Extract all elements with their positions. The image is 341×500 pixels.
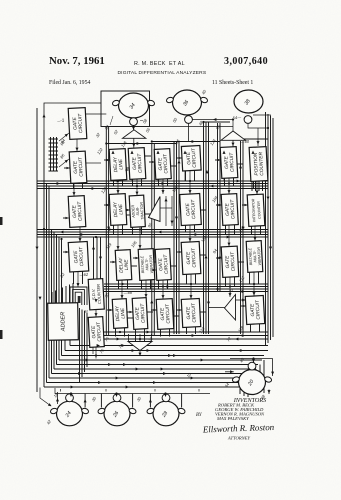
- wire into sdv top: [95, 295, 97, 303]
- gate circuit 118: [245, 296, 264, 325]
- wire drop: [198, 389, 200, 392]
- wire stub out of box: [154, 261, 160, 263]
- wire amp 74 out: [139, 351, 141, 357]
- gate circuit 82: [68, 242, 89, 272]
- wire stub into box: [176, 157, 182, 159]
- wire stub into box: [64, 167, 70, 169]
- wire gate88 to gate82: [79, 227, 81, 242]
- wire delay120 to delay119: [117, 225, 119, 250]
- header: filing date: [49, 80, 90, 86]
- wire stub into box: [216, 204, 222, 206]
- wire stub into box: [240, 305, 246, 307]
- wire ladder to gate 68: [59, 133, 69, 141]
- wire trunk to row1 box: [112, 151, 114, 182]
- row3-row4 horizontal trunk: [104, 284, 268, 292]
- delay line 120: [109, 194, 127, 226]
- wire stub into box: [215, 159, 221, 161]
- gate circuit 114: [181, 146, 201, 171]
- leader 54: [110, 116, 113, 125]
- wire amp96 crossbar: [160, 207, 172, 209]
- wire into amp74 left corner: [128, 334, 130, 342]
- row1-row2 horizontal trunk: [37, 181, 268, 189]
- wire stub out of box: [200, 254, 206, 256]
- wire gate108 to gate110a: [162, 280, 164, 299]
- wire gate116 to gate104: [228, 178, 230, 194]
- row2-row3 horizontal trunk: [37, 230, 268, 238]
- wire gate100 to gate102: [189, 225, 191, 242]
- wire stub into box: [104, 204, 110, 206]
- wire stub into box: [63, 251, 69, 253]
- output sphere 26: [97, 394, 136, 426]
- wire stub out of box: [126, 214, 132, 216]
- rotating sphere 36: [166, 90, 208, 123]
- bistable multivibrator 112: [246, 241, 263, 273]
- wire to amplifier 60: [133, 122, 135, 130]
- sdv counter 78: [88, 279, 104, 310]
- wire into sphere pickoff: [116, 394, 118, 396]
- left vertical wire bundle: [37, 108, 62, 392]
- wire into sphere 20 left ear: [225, 371, 234, 373]
- stubs below position counter: [252, 181, 263, 191]
- wire gate104 to gate94: [228, 225, 230, 247]
- wire into amp74 right corner: [151, 334, 153, 342]
- wire into position counter top: [257, 128, 259, 146]
- adder 72: [48, 303, 79, 341]
- wire gate82 to loops: [77, 272, 79, 288]
- wire stub out of box: [201, 209, 207, 211]
- wire into amp 74: [139, 334, 141, 342]
- gate circuit 110a: [156, 299, 174, 330]
- wire into sphere pickoff: [165, 394, 167, 396]
- wire below sphere 20 right ear: [268, 390, 270, 395]
- wire bus to sphere 20 loop: [230, 358, 273, 360]
- adder subtractor 96: [129, 195, 145, 227]
- wire amp 70b out: [236, 299, 247, 301]
- wire bottom feed: [55, 388, 210, 394]
- wire into sphere 24 left ear: [57, 392, 59, 404]
- wire pickoff 36 to amp 70a: [193, 119, 234, 121]
- trunk bundle G: [241, 141, 244, 334]
- gate circuit 116: [220, 147, 238, 179]
- output sphere 24: [50, 394, 89, 426]
- wire stub into box: [124, 209, 130, 211]
- wire stub out of box: [171, 265, 177, 267]
- bottom horizontal bus: [44, 346, 268, 388]
- wire gate86 to gate88: [73, 183, 75, 196]
- wire right of amp96: [165, 196, 167, 226]
- wire gate86 out: [86, 162, 101, 164]
- gate circuit 76: [88, 317, 104, 348]
- wire drop: [154, 389, 156, 392]
- wire gate76 to bus b: [95, 347, 97, 359]
- wire trunk to row1 box: [252, 151, 254, 182]
- wire stub out of box: [145, 155, 151, 157]
- wire stub into box: [104, 159, 110, 161]
- wire stub into box: [150, 269, 156, 271]
- header: patent number: [224, 56, 268, 67]
- trunk bundle C: [152, 143, 155, 336]
- wire into amp 70b: [209, 307, 225, 309]
- leader 58: [140, 120, 143, 122]
- wire stub into box: [176, 309, 182, 311]
- wire stub out of box: [237, 163, 243, 165]
- wire top-left border: [44, 103, 101, 130]
- wire stub into box: [242, 204, 248, 206]
- gate circuit 84: [132, 298, 148, 330]
- header: title: [118, 71, 207, 76]
- wire drop: [105, 389, 107, 392]
- bistable multivibrator 98: [138, 249, 155, 281]
- wire stub into box: [216, 257, 222, 259]
- svg-text:—88: —88: [122, 290, 133, 296]
- amplifier 96: [149, 197, 161, 222]
- wire gate68 to gate86: [76, 139, 78, 152]
- verticals above adder: [52, 283, 73, 303]
- svg-text:—60: —60: [239, 139, 250, 145]
- wire amp 60 to gate 90: [133, 138, 135, 147]
- gate circuit 90: [128, 148, 146, 180]
- wire into amp 70: [232, 120, 234, 132]
- gate circuit 102: [181, 242, 201, 275]
- rotating sphere 34: [112, 93, 155, 126]
- wire loop down to right ear: [272, 359, 274, 377]
- wire stub out of box: [171, 165, 177, 167]
- svg-text:ATTORNEY: ATTORNEY: [227, 436, 251, 441]
- wire stub into box: [63, 217, 69, 219]
- bus drops right: [240, 360, 264, 397]
- gate circuit 104: [221, 194, 238, 226]
- delay line 119: [115, 250, 132, 281]
- gate circuit 68: [68, 108, 87, 140]
- wire stub out of box: [126, 167, 132, 169]
- wire to sphere24 ear: [40, 388, 51, 407]
- wire gate114 to gate100: [189, 171, 191, 195]
- wire delay122 to delay120: [117, 180, 119, 194]
- wire gate68 to bundleB: [86, 113, 106, 115]
- wire gate102 to gate110: [190, 274, 192, 299]
- wire gate76 to bus: [92, 347, 94, 354]
- gate circuit 110: [181, 299, 200, 328]
- delay line 80: [112, 299, 127, 329]
- wire into sphere 20 pickoff: [253, 359, 255, 364]
- wire stub out of box: [238, 261, 244, 263]
- wire sdv to gate76: [95, 310, 97, 318]
- gate circuit 108: [155, 249, 171, 281]
- wire gate90 to addersub: [136, 179, 138, 196]
- gate circuit 86: [69, 151, 87, 183]
- wire stub into box: [107, 309, 113, 311]
- row4-bus horizontal trunk: [104, 332, 268, 339]
- wire stub out of box: [173, 315, 179, 317]
- wire pickoff 38 to border: [248, 123, 268, 128]
- header: sheet number: [212, 80, 253, 86]
- svg-text:—62: —62: [78, 272, 89, 278]
- amplifier 60: [123, 130, 146, 139]
- wire trunk to row1 box: [184, 151, 186, 182]
- gate circuit 94: [221, 246, 239, 277]
- wire stub out of box: [131, 265, 137, 267]
- wire stub into box: [127, 311, 133, 313]
- wire gate94 down: [229, 277, 231, 297]
- gate circuit 100: [180, 193, 202, 225]
- svg-text:POSITIONCOUNTER: POSITIONCOUNTER: [253, 151, 266, 176]
- trunk bundle B: [106, 127, 108, 336]
- wire into sphere pickoff: [70, 394, 72, 396]
- svg-text:ADDER: ADDER: [60, 312, 66, 333]
- wire right of amp96 b: [171, 196, 173, 226]
- amplifier 74: [128, 342, 152, 351]
- trunk bundle D: [174, 141, 179, 334]
- box bottom stubs: [74, 171, 263, 342]
- amplifier 70b: [225, 295, 236, 321]
- wire trunk to row1 box: [131, 151, 133, 182]
- top horizontal connectors above row1: [106, 122, 268, 144]
- wire rect 34 bottom extension: [150, 126, 234, 128]
- position counter 126: [249, 147, 268, 182]
- wire stub into box: [133, 257, 139, 259]
- wire drop: [60, 389, 62, 392]
- wire rect around sphere 34: [101, 91, 150, 127]
- wire bistable112 to gate118: [253, 272, 255, 296]
- scan mark: [0, 217, 3, 225]
- svg-text:MAX PALEVSKY: MAX PALEVSKY: [216, 416, 249, 421]
- svg-text:54—: 54—: [232, 115, 242, 121]
- wire bistable98 to gate84: [145, 280, 147, 298]
- wire stub out of box: [127, 317, 133, 319]
- wire gate92 down: [162, 179, 164, 194]
- wire pickoff 36 down: [188, 123, 190, 141]
- wire stub into box: [149, 161, 155, 163]
- ear riser wires: [85, 394, 182, 408]
- wire pickoff 38 upper loop: [253, 115, 271, 118]
- gate circuit 92: [154, 149, 171, 180]
- wire poscounter to intcounter: [256, 181, 258, 195]
- wire trunk to row1 box: [223, 151, 225, 182]
- commutator 64: [49, 137, 59, 171]
- wire addersub to bistable98: [139, 227, 141, 249]
- wire intcounter to bistable112: [254, 226, 256, 241]
- wire stub out of box: [200, 311, 206, 313]
- trunk bundle E: [204, 122, 209, 334]
- verticals above sdv counter: [94, 237, 101, 279]
- rotating sphere 38: [234, 90, 263, 123]
- wire stub into box: [110, 261, 116, 263]
- output sphere 20: [232, 362, 272, 394]
- hairpin loops above adder: [70, 287, 87, 305]
- scan mark: [0, 330, 3, 339]
- wire ladder to gate 86: [59, 159, 69, 167]
- integrator counter 106: [247, 194, 265, 226]
- wire delay119 to delay80: [121, 280, 123, 299]
- delay line 122: [109, 149, 127, 181]
- amplifier 70: [221, 131, 246, 140]
- gate circuit 88: [68, 196, 86, 228]
- wire stub out of box: [147, 311, 153, 313]
- right border bundle: [266, 112, 274, 346]
- bundle right of adder: [80, 308, 88, 382]
- trunk bundle F: [218, 123, 221, 292]
- header: date: [49, 55, 105, 67]
- wire stub into box: [123, 169, 129, 171]
- wire stub into box: [176, 251, 182, 253]
- wire amp 70 to gate 116: [232, 140, 234, 146]
- header: inventor names: [134, 61, 185, 67]
- verticals below adder: [65, 340, 70, 351]
- wire stub into box: [151, 309, 157, 311]
- wire trunk to row1 box: [157, 151, 159, 182]
- wire stub out of box: [145, 213, 151, 215]
- output sphere 28: [146, 394, 185, 426]
